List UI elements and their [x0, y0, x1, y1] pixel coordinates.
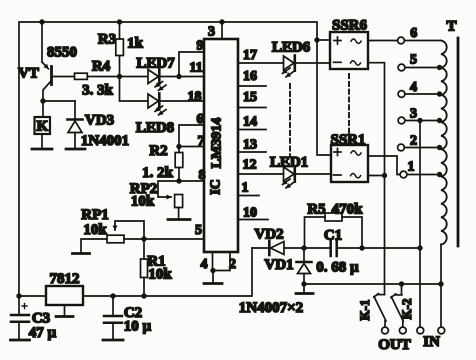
- svg-text:15: 15: [243, 90, 257, 105]
- LED1: [283, 167, 295, 188]
- node: R1 bottom junction: [141, 293, 146, 298]
- resistor R1 10k: [141, 239, 148, 296]
- svg-text:4: 4: [201, 257, 208, 272]
- node: VD1/neutral rail junction: [301, 281, 306, 286]
- wire: IC pin 8: [179, 180, 204, 182]
- svg-text:1N4001: 1N4001: [81, 133, 129, 149]
- wire: node to LED7 anode: [120, 76, 149, 78]
- node: K-2 junction on neutral rail: [399, 281, 404, 286]
- svg-text:0. 68 µ: 0. 68 µ: [316, 259, 359, 275]
- node: R5/C1 right junction: [359, 245, 364, 250]
- ground under C3: [11, 339, 30, 342]
- svg-text:10k: 10k: [83, 222, 107, 238]
- LED7: [148, 69, 166, 90]
- wire: neutral rail: [304, 283, 441, 285]
- wire: IC pin 11: [179, 76, 204, 78]
- wire: SSR1 top output to terminal 1: [368, 156, 400, 175]
- ground under 7812: [56, 305, 73, 317]
- wire: SSR1 bottom output to bus: [368, 175, 385, 177]
- ground under IC: [204, 282, 222, 285]
- transformer core: [457, 38, 460, 246]
- node: pin4 ground junction: [210, 268, 215, 273]
- terminal circle 2: [398, 144, 405, 151]
- capacitor C3 47u electrolytic: [11, 304, 29, 340]
- svg-text:VT: VT: [18, 66, 39, 82]
- svg-text:IC: IC: [209, 179, 224, 195]
- wire: IC pins 4 and 2 to ground: [213, 252, 231, 283]
- ground under C2: [103, 339, 123, 342]
- switch K-2: [391, 284, 406, 334]
- wire: +supply bus down to SSR1 + input: [317, 40, 331, 155]
- node: pin5/RP1/R1 junction: [141, 236, 146, 241]
- svg-text:K-1: K-1: [357, 300, 372, 321]
- terminal circle 1: [400, 171, 407, 178]
- node: transformer tap 3: [437, 118, 442, 123]
- svg-text:VD3: VD3: [85, 113, 114, 129]
- node: C2 junction on regulator output: [110, 293, 115, 298]
- terminal circle IN right: [438, 327, 445, 334]
- wire: LED7 cathode to pin11 node: [161, 76, 180, 78]
- wire: VD2 cathode down to regulator output line: [144, 248, 252, 296]
- node: pin9/pin11 junction: [176, 74, 181, 79]
- diode VD2: [252, 241, 304, 255]
- wire: IC pin 12 to LED1: [238, 173, 284, 175]
- svg-text:LED1: LED1: [270, 154, 308, 170]
- node: transformer tap 2: [437, 145, 442, 150]
- svg-text:R2: R2: [149, 143, 167, 159]
- wire: node down to LED8 anode: [120, 77, 149, 102]
- ground under RP1: [73, 252, 90, 255]
- svg-text:1: 1: [408, 159, 415, 174]
- wire: stub to SSR6 + input: [317, 39, 330, 41]
- svg-text:3. 3k: 3. 3k: [82, 83, 114, 99]
- node: transformer tap 5: [437, 65, 442, 70]
- node: VT emitter junction on top rail: [39, 19, 44, 24]
- wire: IC pin 14 stub: [238, 129, 266, 131]
- node: transformer tap 4: [437, 91, 442, 96]
- wire: IC pin 17 to LED6: [238, 62, 284, 64]
- terminal circle 6: [398, 37, 405, 44]
- wire: IC pin 13 stub: [238, 151, 266, 153]
- svg-text:K: K: [36, 119, 48, 135]
- svg-text:IN: IN: [423, 334, 440, 350]
- svg-text:6: 6: [410, 26, 417, 41]
- wire: LED6 cathode to SSR6 - input: [296, 62, 330, 64]
- svg-text:3: 3: [208, 24, 215, 39]
- node: R3 top junction on top rail: [117, 19, 122, 24]
- wire: IC pin 10 stub: [238, 219, 268, 221]
- switch K-1: [374, 294, 389, 334]
- svg-text:3: 3: [410, 106, 417, 121]
- node: pin6/pin7/R2 junction: [176, 144, 181, 149]
- wire: winding bottom down to IN terminal: [440, 245, 442, 328]
- wire: sense line from tap3 down to C1 node: [419, 121, 421, 249]
- svg-text:LED8: LED8: [136, 120, 174, 136]
- SSR1 solid state relay: [331, 145, 368, 182]
- svg-text:R5: R5: [307, 202, 325, 218]
- svg-text:16: 16: [243, 69, 257, 84]
- wire: terminal 5 to transformer tap 5: [405, 67, 441, 69]
- svg-text:470k: 470k: [332, 202, 364, 218]
- node: IC pin3 junction on top rail: [219, 19, 224, 24]
- svg-text:12: 12: [243, 157, 257, 172]
- svg-text:1. 2k: 1. 2k: [142, 165, 174, 181]
- SSR6 solid state relay: [330, 32, 368, 69]
- node: SSR1 output joins common bus: [382, 173, 387, 178]
- svg-text:17: 17: [243, 48, 257, 63]
- wire: IC pin 15 stub: [238, 107, 266, 109]
- wire: C1 node to sense line: [362, 247, 420, 249]
- svg-text:LED6: LED6: [272, 40, 311, 56]
- wire: terminal 6 to transformer top: [405, 40, 442, 42]
- potentiometer RP1 10k: [81, 221, 144, 253]
- terminal circle IN left: [417, 327, 424, 334]
- svg-text:LM3914: LM3914: [210, 118, 225, 169]
- svg-text:8: 8: [199, 168, 206, 183]
- wire: IC pin 3: [221, 22, 223, 39]
- svg-text:11: 11: [189, 60, 202, 75]
- ground under RP2: [168, 218, 190, 221]
- relay K: [35, 101, 51, 148]
- svg-text:R3: R3: [98, 32, 116, 48]
- diode VD1: [297, 248, 312, 284]
- wire: IC pin 9: [179, 52, 204, 77]
- dashed ellipsis between LED6 and LED1: [289, 84, 291, 157]
- resistor R3 1k: [116, 22, 124, 77]
- svg-text:C1: C1: [324, 228, 342, 244]
- wire: terminal 3 to transformer tap 3: [405, 120, 441, 122]
- svg-text:R4: R4: [92, 59, 111, 75]
- svg-text:13: 13: [243, 137, 257, 152]
- svg-text:10: 10: [243, 205, 257, 220]
- svg-text:LED7: LED7: [136, 56, 175, 72]
- wire: terminal 2 to transformer tap 2: [405, 147, 442, 149]
- wire: SSR6 bottom output to common bus: [368, 63, 385, 176]
- diode VD3 1N4001: [68, 101, 83, 148]
- terminal circle 5: [398, 64, 405, 71]
- wire: sense line down to IN terminal: [419, 248, 421, 327]
- ground under K: [32, 148, 52, 151]
- svg-text:14: 14: [243, 114, 257, 129]
- svg-text:1k: 1k: [127, 35, 144, 51]
- svg-text:5: 5: [195, 223, 202, 238]
- svg-text:2: 2: [229, 257, 236, 272]
- wire: terminal 4 to transformer tap 4: [405, 93, 441, 95]
- wire: IC pin 5: [124, 238, 204, 240]
- wire: IC pin 1 stub: [238, 195, 259, 197]
- transistor VT 8550 (PNP): [42, 22, 52, 101]
- svg-text:2: 2: [410, 133, 417, 148]
- capacitor C2 10u: [104, 296, 122, 339]
- wire: IC pin 16 stub: [238, 85, 266, 87]
- wire: collector node to VD3: [43, 100, 75, 102]
- node: sense line junction on tap 3 wire: [417, 118, 422, 123]
- svg-text:VD2: VD2: [254, 227, 283, 243]
- svg-text:7: 7: [198, 134, 205, 149]
- IC U1 LM3914: [204, 39, 238, 252]
- svg-text:1N4007×2: 1N4007×2: [239, 300, 303, 316]
- svg-text:8550: 8550: [47, 45, 77, 61]
- svg-text:VD1: VD1: [264, 257, 293, 273]
- svg-text:6: 6: [197, 112, 204, 127]
- node: VT collector junction: [40, 98, 45, 103]
- svg-text:OUT: OUT: [378, 337, 411, 353]
- regulator 7812: [19, 286, 144, 305]
- node: transformer tap 1: [437, 172, 442, 177]
- resistor R2 1.2k: [175, 147, 183, 182]
- svg-text:RP1: RP1: [81, 207, 109, 223]
- capacitor C1 0.68u: [307, 240, 362, 256]
- node: SSR supply branch junction: [314, 37, 319, 42]
- svg-text:47 µ: 47 µ: [29, 325, 57, 341]
- wire: LED8 cathode to IC pin 18: [161, 100, 205, 102]
- svg-text:10 µ: 10 µ: [124, 319, 152, 335]
- transformer T primary winding: [441, 41, 447, 245]
- wire: IC pin 6: [179, 125, 204, 147]
- svg-text:K-2: K-2: [399, 299, 414, 320]
- resistor R4 3.3k: [75, 73, 88, 79]
- svg-text:SSR1: SSR1: [330, 132, 365, 148]
- wire: SSR6 top output to terminal 6: [368, 40, 398, 42]
- node: regulator input junction on left rail: [16, 293, 21, 298]
- svg-text:5: 5: [410, 52, 417, 67]
- node: R3/R4/LED7/LED8 junction: [117, 74, 122, 79]
- svg-text:9: 9: [197, 38, 204, 53]
- node: VD2/R5/VD1/C1 junction: [301, 245, 306, 250]
- wire: left supply rail and top rail: [19, 22, 317, 315]
- node: sense line joins C1 wire: [417, 245, 422, 250]
- dashed ellipsis between SSR6 and SSR1: [348, 74, 350, 139]
- ground under VD1: [296, 284, 313, 294]
- potentiometer RP2 10k: [158, 181, 183, 219]
- wire: R4 to LED7 node: [87, 76, 119, 78]
- LED8: [148, 94, 166, 115]
- resistor R5 470k: [305, 213, 363, 248]
- svg-text:T: T: [446, 19, 456, 35]
- svg-text:10k: 10k: [148, 267, 172, 283]
- ground under VD3: [66, 148, 85, 151]
- svg-text:7812: 7812: [50, 271, 80, 287]
- svg-text:SSR6: SSR6: [332, 18, 368, 34]
- node: winding bottom joins neutral rail: [438, 281, 443, 286]
- wire: common bus down to switch K-1: [384, 176, 386, 295]
- svg-text:18: 18: [188, 89, 202, 104]
- svg-text:4: 4: [410, 80, 417, 95]
- terminal circle 3: [398, 117, 405, 124]
- terminal circle 4: [398, 91, 405, 98]
- svg-text:1: 1: [242, 180, 249, 195]
- LED6: [283, 56, 295, 77]
- wire: IC pin 7: [179, 146, 204, 148]
- wire: VT base to R4: [52, 76, 75, 78]
- wire: terminal 1 to transformer tap 1: [407, 174, 441, 176]
- svg-text:10k: 10k: [131, 194, 155, 210]
- node: pin8/R2/RP2 junction: [176, 178, 181, 183]
- wire: LED1 cathode to SSR1 - input: [296, 173, 331, 175]
